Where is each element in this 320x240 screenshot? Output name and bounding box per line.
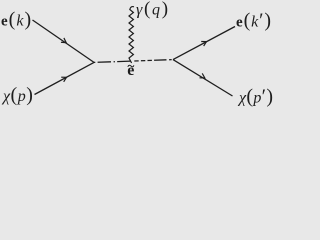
- tilde of e-tilde: [128, 65, 134, 67]
- svg-text:γ(q): γ(q): [136, 0, 170, 20]
- selectron propagator left segment (dash-dot): [94, 61, 131, 62]
- wire chi(p') leg: [173, 60, 233, 96]
- svg-text:χ(p): χ(p): [1, 84, 33, 106]
- selectron propagator right segment (dash-dot): [134, 60, 173, 61]
- wire electron leg e(k): [33, 20, 95, 62]
- svg-text:χ(p′): χ(p′): [237, 86, 273, 108]
- arrow on e(k) leg: [61, 38, 68, 45]
- svg-text:e: e: [127, 62, 134, 79]
- wire electron leg e(k'): [173, 27, 235, 60]
- wire chi(p) leg: [35, 62, 95, 94]
- arrow on chi(p) leg: [61, 75, 68, 82]
- arrow on e(k') leg: [201, 39, 208, 46]
- photon zigzag gamma(q): [129, 7, 134, 63]
- arrow on chi(p') leg: [200, 73, 207, 80]
